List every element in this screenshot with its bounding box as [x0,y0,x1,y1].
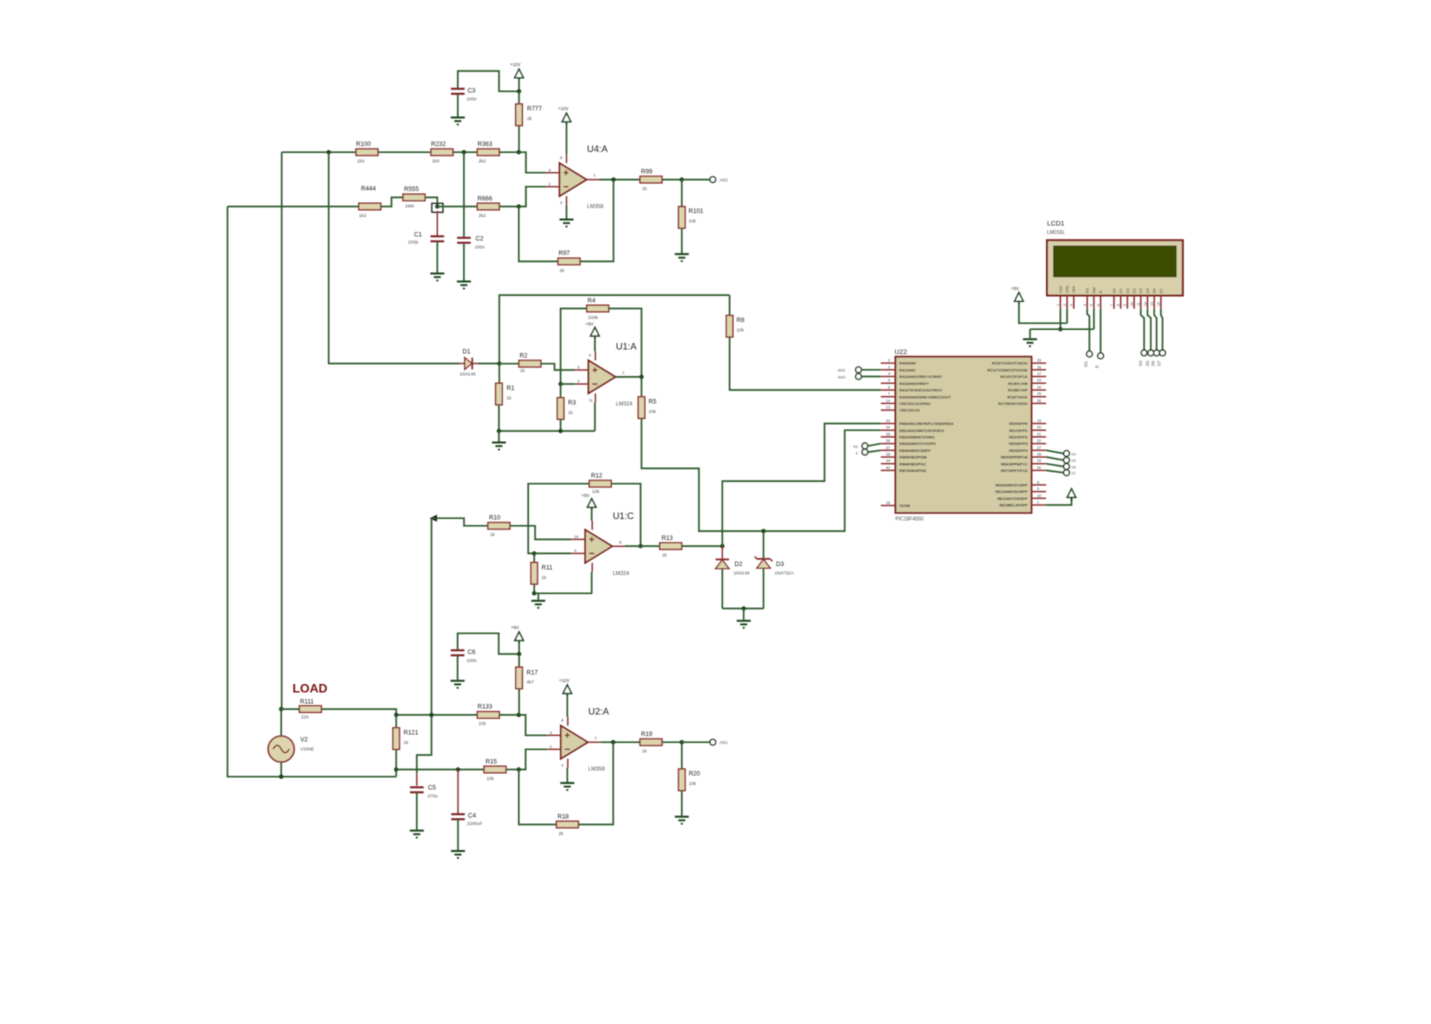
pin 8 RE0/AN5/CK1SPP [995,480,1046,487]
wire diode bottom row [722,608,763,610]
op-amp U1:A [575,351,628,402]
wire R555 to box node [425,197,437,206]
svg-text:9: 9 [1037,487,1039,491]
wire RS down [1087,309,1089,351]
ground ground LCD [1023,339,1037,346]
wire R10 input tap [432,518,488,526]
wire R11 bottom [533,584,535,593]
capacitor C3 [451,89,465,94]
wire U1:C bottom row [534,592,592,594]
svg-text:1k2: 1k2 [359,213,367,218]
svg-text:+5V: +5V [586,322,594,327]
junction bottom row left [497,429,501,433]
terminal AN1 pic [856,367,862,373]
pin 15 RC0/T1OSO/T13CKI [992,359,1046,366]
op-amp U2:A [547,717,600,768]
svg-text:8: 8 [560,156,562,160]
svg-text:7: 7 [888,392,890,396]
wire -input U1:C [534,552,571,554]
svg-text:19: 19 [1037,419,1041,423]
svg-text:2: 2 [888,359,890,363]
wire C3 top to R777 node [458,71,519,91]
svg-text:33: 33 [886,419,890,423]
ground ground R20 [675,817,689,824]
svg-text:RS: RS [853,445,858,449]
wire R121 top lead [395,715,397,728]
svg-text:RB6/KBI2/PGC: RB6/KBI2/PGC [900,462,927,466]
junction node T4 [517,204,521,208]
resistor R19 [640,739,662,746]
svg-text:2k: 2k [527,116,533,121]
junction -input node U2:A [517,767,521,771]
svg-text:R10: R10 [489,515,501,522]
junction -input U1:C [532,551,536,555]
resistor R1 [496,383,503,405]
svg-text:R99: R99 [641,168,653,175]
wire R15 to -node [506,769,519,771]
svg-text:R111: R111 [300,699,314,706]
pin 10 RE2/AN7/OESPP [997,494,1046,501]
wire +12V to U4:A V+ [566,125,568,154]
svg-text:2: 2 [549,182,551,186]
wire R444 to R555 [381,197,403,206]
ground ground C5 [410,831,424,838]
svg-text:11: 11 [1137,302,1141,306]
resistor R8 [726,315,733,337]
pin 33 RB0/AN12/INT0/FLT0/SDI/SDA [881,419,954,426]
wire D5 terminal [1046,457,1064,460]
svg-text:10k: 10k [487,776,495,781]
wire U1:A V- down [594,402,596,431]
pin 27 RD4/SPP4 [1009,446,1046,453]
ground ground C6 [451,681,465,688]
svg-text:R4: R4 [588,297,596,304]
svg-text:26: 26 [1037,399,1041,403]
svg-text:1k: 1k [520,368,526,373]
svg-text:1k: 1k [568,410,574,415]
svg-text:U1:C: U1:C [613,511,634,521]
pin 22 RD3/SPP3 [1009,439,1046,446]
wire +5V to U1:C V+ [591,511,593,521]
wire R20 bottom lead [681,791,683,816]
junction node X [720,544,724,548]
svg-text:6: 6 [1096,304,1100,306]
junction LOAD node [279,707,283,711]
capacitor C5 [410,787,424,792]
wire C2 vertical [463,152,465,238]
svg-text:23: 23 [1037,379,1041,383]
LCD pin 7 D0 [1110,288,1117,308]
svg-text:5: 5 [888,379,890,383]
wire D1 to node [478,363,499,365]
svg-text:RS: RS [1084,361,1089,367]
svg-text:22: 22 [1037,439,1041,443]
wire C1 bottom lead [436,241,438,272]
wire R17 top lead [518,654,520,667]
resistor R5 [638,397,645,419]
svg-text:+12V: +12V [558,106,568,111]
svg-text:8: 8 [1037,480,1039,484]
wire R5 bottom path [642,418,881,531]
power power +12V U2:A [563,685,572,697]
svg-text:220p: 220p [408,240,419,245]
svg-text:RC5/D+/VP: RC5/D+/VP [1008,389,1028,393]
resistor R100 [356,149,378,156]
svg-text:3: 3 [549,168,551,172]
svg-text:U1:A: U1:A [616,341,637,351]
svg-text:RD5/SPP5/P1B: RD5/SPP5/P1B [1001,456,1028,460]
pin 14 OSC2/CLKO/RA6 [881,399,931,406]
svg-text:3: 3 [550,731,552,735]
LCD pin 6 E [1096,290,1103,309]
resistor R2 [519,360,541,367]
wire R1 bottom [498,405,500,431]
svg-text:18: 18 [886,501,890,505]
svg-text:RC6/TX/CK: RC6/TX/CK [1007,395,1027,399]
svg-text:2k: 2k [559,831,565,836]
pin 1 RE3/MCLR/VPP [999,501,1046,508]
svg-text:RD0/SPP0: RD0/SPP0 [1009,422,1027,426]
LCD pin 10 D3 [1130,288,1137,308]
wire tap vertical [417,518,432,773]
junction V2 bottom [279,775,283,779]
origin arrow marker [430,515,438,522]
svg-text:16: 16 [1037,365,1041,369]
svg-text:LM324: LM324 [616,401,632,407]
svg-text:17: 17 [1037,372,1041,376]
terminal E lcd [1098,353,1104,359]
svg-text:R133: R133 [478,704,493,711]
pin 25 RC6/TX/CK [1007,392,1046,399]
svg-text:1k: 1k [642,186,648,191]
wire R13 to node X [682,545,723,547]
svg-text:C6: C6 [468,649,476,656]
junction R133/R17 node [517,713,521,717]
wire R12 right loop [611,484,640,546]
wire T4 down to R97 [519,207,558,262]
ground ground C4 [451,851,465,858]
svg-text:37: 37 [886,446,890,450]
wire C6 bottom lead [457,656,459,680]
resistor R232 [431,149,453,156]
wire R11 top [533,553,535,562]
resistor R10 [488,523,510,530]
wire top row [282,151,519,153]
svg-text:R13: R13 [662,535,674,542]
svg-text:RE2/AN7/OESPP: RE2/AN7/OESPP [997,497,1028,501]
pin 17 RC2/CCP1/P1A [1000,372,1046,379]
wire vertical left 2 [228,207,397,777]
pin 35 RB2/AN8/INT2/VMO [881,432,935,439]
wire R20 top lead [681,742,683,769]
power power +5V U1:A [591,327,600,339]
wire LCD D4 down [1141,309,1144,350]
op-amp U1:C [572,521,625,572]
junction R17 top node [517,652,521,656]
svg-text:30: 30 [1037,466,1041,470]
svg-text:RC2/CCP1/P1A: RC2/CCP1/P1A [1000,375,1027,379]
pin 40 RB7/KBI3/PGD [881,466,927,473]
svg-text:14: 14 [886,399,890,403]
wire -node to -input U2:A [519,749,547,769]
svg-text:RD4/SPP4: RD4/SPP4 [1009,449,1028,453]
wire C4 top lead [457,770,459,815]
svg-text:1N4148: 1N4148 [734,571,751,576]
junction C4 node [456,767,460,771]
svg-text:1: 1 [594,174,596,178]
svg-text:RB7/KBI3/PGD: RB7/KBI3/PGD [900,469,927,473]
svg-text:VDD: VDD [1066,285,1070,293]
junction R99/R101 [680,177,684,181]
junction R19/R20 [680,740,684,744]
LCD pin 14 D7 [1157,288,1164,308]
resistor R12 [589,480,611,487]
pin 16 RC1/T1OSI/CCP2/UOE [987,365,1046,372]
svg-text:1k: 1k [662,553,668,558]
wire E terminal [868,450,881,452]
wire RS terminal [868,444,881,446]
capacitor C4 [451,814,465,819]
svg-text:RA2/AN2/VREF-/CVREF: RA2/AN2/VREF-/CVREF [900,375,943,379]
svg-text:D1: D1 [1119,288,1123,293]
resistor R121 [393,728,400,750]
wire U2:A output [600,741,682,743]
svg-text:11: 11 [589,398,593,402]
junction U2:A out [611,740,615,744]
wire C2 bottom lead [463,243,465,281]
LCD pin 8 D1 [1117,288,1124,308]
svg-text:RB4/KBI0/CSSPP: RB4/KBI0/CSSPP [900,449,932,453]
svg-text:RB1/AN10/INT1/SCK/SCL: RB1/AN10/INT1/SCK/SCL [900,429,946,433]
resistor R4 [587,305,609,312]
svg-text:7: 7 [1110,304,1114,306]
junction R11 bottom [532,591,536,595]
svg-text:1M0: 1M0 [405,204,414,209]
wire T1 to +input U4:A [519,152,546,173]
wire R4 right loop [608,309,641,377]
pin 24 RC5/D+/VP [1008,386,1046,393]
svg-text:3: 3 [577,366,579,370]
svg-text:10k: 10k [592,489,600,494]
svg-text:RD2/SPP2: RD2/SPP2 [1009,436,1027,440]
wire RW down [1093,309,1095,330]
svg-text:38: 38 [886,453,890,457]
power power +12V top [515,69,524,81]
svg-text:3: 3 [888,365,890,369]
wire vertical 3 to D1 [329,152,460,363]
wire R3 top [560,384,562,398]
resistor R111 [299,706,321,713]
svg-text:R666: R666 [478,195,493,202]
svg-text:5: 5 [1090,304,1094,306]
pin 26 RC7/RX/DT/SDO [998,399,1046,406]
svg-text:39: 39 [886,459,890,463]
svg-text:C4: C4 [468,813,476,820]
svg-text:1N4732A: 1N4732A [775,571,795,576]
wire box node to R666 [437,206,477,208]
wire R121 bottom lead [395,749,397,776]
svg-text:D5: D5 [1146,288,1150,293]
terminal D7 pic [1064,470,1070,476]
svg-text:AN1: AN1 [838,368,847,373]
terminal RS lcd [1087,351,1093,357]
wire C6 top to R17 node [458,633,519,654]
svg-text:4: 4 [1083,304,1087,306]
resistor R18 [556,821,578,828]
svg-text:8: 8 [561,719,563,723]
svg-text:RS: RS [1086,287,1090,293]
wire R3 bottom [560,419,562,431]
svg-text:4k7: 4k7 [527,680,535,685]
svg-text:1k0: 1k0 [432,159,440,164]
svg-text:13: 13 [1150,302,1154,306]
svg-text:1k0: 1k0 [357,159,365,164]
microcontroller U22 body [895,357,1031,513]
svg-text:RC4/D-/VM: RC4/D-/VM [1008,382,1027,386]
ground ground C1 [430,274,444,281]
svg-text:1: 1 [595,736,597,740]
svg-text:RB2/AN8/INT2/VMO: RB2/AN8/INT2/VMO [900,436,935,440]
wire U4:A V- to ground [566,205,568,218]
junction node T3 [327,150,331,154]
svg-text:D2: D2 [735,561,743,568]
svg-text:9: 9 [574,549,576,553]
ground ground R101 [675,254,689,261]
svg-text:LCD1: LCD1 [1047,221,1065,228]
current probe box [432,203,443,212]
junction R121 top node [394,713,398,717]
svg-text:C2: C2 [476,236,484,243]
resistor R17 [516,667,523,689]
terminal D7 lcd [1160,350,1166,356]
resistor R3 [557,398,564,420]
svg-text:35: 35 [886,432,890,436]
svg-text:RB5/KBI1/PGM: RB5/KBI1/PGM [900,456,927,460]
svg-text:4: 4 [888,372,890,376]
svg-text:C3: C3 [468,88,476,95]
power power RE3 +5V [1067,489,1076,501]
svg-text:15: 15 [1037,359,1041,363]
svg-text:D6: D6 [1151,360,1156,366]
LCD pin 12 D5 [1143,288,1150,308]
svg-text:V2: V2 [300,737,308,744]
terminal D6 lcd [1154,350,1160,356]
svg-text:R101: R101 [689,208,704,215]
svg-text:R17: R17 [527,670,539,677]
svg-text:D2: D2 [1126,288,1130,293]
terminal D5 lcd [1148,350,1154,356]
svg-text:10: 10 [1130,302,1134,306]
svg-text:VUSB: VUSB [900,504,911,508]
svg-text:R444: R444 [361,186,376,193]
svg-text:10: 10 [574,535,578,539]
wire ground stem U1:C [537,593,539,600]
wire top loop U1:A [499,295,729,363]
svg-text:RC0/T1OSO/T13CKI: RC0/T1OSO/T13CKI [992,362,1028,366]
svg-text:14: 14 [1157,302,1161,306]
terminal D4 lcd [1141,350,1147,356]
svg-text:D4: D4 [1139,288,1143,293]
svg-text:1k: 1k [542,575,548,580]
terminal D4 pic [1064,451,1070,457]
svg-text:U2:A: U2:A [588,707,609,717]
wire C4 bottom lead [457,820,459,850]
wire AN1 terminal [861,369,880,371]
svg-text:RE1/AN6/CK2SPP: RE1/AN6/CK2SPP [995,490,1028,494]
svg-text:10k: 10k [737,328,745,333]
svg-text:RW: RW [1092,286,1096,293]
svg-text:R232: R232 [431,141,446,148]
svg-text:1k: 1k [490,532,496,537]
pin 4 RA2/AN2/VREF-/CVREF [881,372,943,379]
wire U2:A V- down [566,768,568,782]
svg-text:AN2: AN2 [838,375,847,380]
wire to terminal AN2 [682,179,710,181]
resistor R555 [403,194,425,201]
svg-text:D4: D4 [1072,453,1076,457]
terminal AN1 output [710,739,716,745]
svg-text:+12V: +12V [510,62,520,67]
terminal D5 pic [1064,457,1070,463]
pin 28 RD5/SPP5/P1B [1001,453,1046,460]
wire D4 terminal [1046,450,1064,453]
wire D6 terminal [1046,464,1064,467]
svg-text:LOAD: LOAD [293,681,328,695]
svg-text:1k: 1k [642,749,648,754]
svg-text:PIC18F4550: PIC18F4550 [895,517,923,523]
junction R10 tap node [429,713,433,717]
capacitor C1 [431,236,445,241]
svg-text:100k: 100k [588,315,599,320]
junction node T1 [517,150,521,154]
wire C5 bottom lead [416,793,418,830]
svg-text:AN2: AN2 [720,178,729,183]
wire U4:A output [599,179,682,181]
svg-text:2: 2 [577,380,579,384]
svg-text:D5: D5 [1072,459,1076,463]
pin 5 RA3/AN3/VREF+ [881,379,930,386]
svg-text:R3: R3 [568,400,576,407]
svg-text:RB0/AN12/INT0/FLT0/SDI/SDA: RB0/AN12/INT0/FLT0/SDI/SDA [900,422,954,426]
svg-text:LM358: LM358 [588,767,604,773]
capacitor C6 [451,650,465,655]
svg-text:RD7/SPP7/P1D: RD7/SPP7/P1D [1001,469,1028,473]
svg-text:RA5/AN4/SS/HLVDIN/C2OUT: RA5/AN4/SS/HLVDIN/C2OUT [900,395,952,399]
wire U1:C V- down [591,572,593,594]
wire node X to RB0 [722,424,881,547]
wire D7 terminal [1046,470,1064,472]
svg-text:36: 36 [886,439,890,443]
pin 34 RB1/AN10/INT1/SCK/SCL [881,426,946,433]
wire R5 top [641,377,643,397]
svg-text:D6: D6 [1153,288,1157,293]
svg-text:34: 34 [886,426,890,430]
resistor R666 [477,203,499,210]
resistor R20 [679,769,686,791]
svg-text:OSC2/CLKO/RA6: OSC2/CLKO/RA6 [900,402,931,406]
junction R121 bottom [394,767,398,771]
svg-text:470u: 470u [428,794,439,799]
svg-text:R1: R1 [507,385,515,392]
svg-text:9: 9 [1123,304,1127,306]
svg-text:D7: D7 [1157,360,1162,366]
svg-text:29: 29 [1037,459,1041,463]
svg-text:24: 24 [1037,386,1041,390]
wire U1:A out to junction [615,376,641,378]
pin 37 RB4/KBI0/CSSPP [881,446,931,453]
svg-text:RC1/T1OSI/CCP2/UOE: RC1/T1OSI/CCP2/UOE [987,368,1028,372]
wire D3 top lead [763,531,765,559]
